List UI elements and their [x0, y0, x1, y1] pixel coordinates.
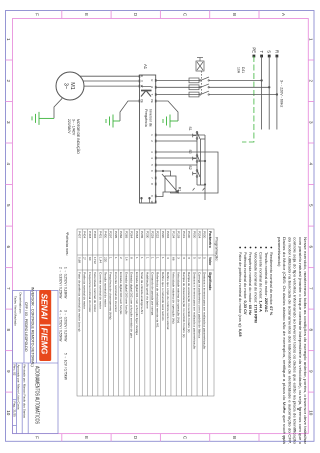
ground motor [32, 112, 54, 125]
title main [34, 366, 41, 424]
svg-text:A: A [281, 13, 286, 17]
svg-text:Inversor de: Inversor de [149, 109, 153, 127]
title row approved [16, 365, 20, 410]
svg-text:P403: P403 [88, 231, 92, 239]
circuit breaker DJ1 label [237, 67, 246, 74]
svg-text:D: D [133, 436, 138, 440]
inverter symbol [141, 87, 152, 97]
svg-text:4: 4 [166, 257, 170, 259]
inverter text label [144, 109, 153, 127]
potentiometer R1 [162, 174, 179, 193]
svg-text:1: 1 [109, 257, 113, 259]
title row project [31, 287, 35, 367]
wire R rail [276, 56, 278, 130]
svg-text:P295: P295 [114, 231, 118, 239]
svg-text:P265: P265 [124, 231, 128, 239]
svg-text:FIEMG: FIEMG [40, 328, 50, 355]
svg-text:6: 6 [150, 170, 154, 172]
wire motor V [83, 80, 140, 82]
svg-text:Rampa de desaceleração no sent: Rampa de desaceleração no sentido horári… [182, 272, 186, 337]
svg-text:Fator de potência nominal do m: Fator de potência nominal do motor (cos … [77, 272, 81, 331]
svg-text:P134: P134 [171, 231, 175, 239]
svg-text:5: 5 [6, 204, 11, 207]
wire phase L1 drop [156, 79, 262, 81]
svg-text:Parâmetro: Parâmetro [208, 231, 212, 248]
svg-text:10: 10 [308, 410, 313, 416]
pushbutton S1 label [188, 127, 192, 131]
svg-text:3: 3 [187, 257, 191, 259]
svg-text:P297: P297 [109, 231, 113, 239]
svg-text:P402: P402 [93, 231, 97, 239]
svg-text:MOTOR DE INDUÇÃO: MOTOR DE INDUÇÃO [76, 119, 81, 154]
svg-text:P264: P264 [130, 231, 134, 239]
svg-text:1,44: 1,44 [98, 257, 102, 263]
parameter table text [77, 231, 212, 349]
junction T drop [260, 79, 262, 81]
node PE [251, 47, 256, 57]
svg-text:Entrada digital DI1 com a funç: Entrada digital DI1 com a função liga / … [135, 272, 139, 335]
svg-text:Frequência nominal do motor: Frequência nominal do motor [88, 272, 92, 312]
wire pot feed [156, 152, 218, 197]
svg-text:B: B [232, 436, 237, 439]
junction R drop [276, 93, 278, 95]
svg-text:S1: S1 [188, 127, 192, 131]
pushbutton S0 label [188, 150, 192, 154]
svg-text:Rev.: 02: Rev.: 02 [13, 365, 17, 376]
svg-text:2*: 2* [83, 257, 87, 261]
svg-text:7: 7 [308, 287, 313, 290]
pushbutton S2 [193, 170, 200, 178]
svg-text:7: 7 [6, 287, 11, 290]
svg-text:1712: 1712 [93, 257, 97, 264]
svg-text:ACIONAMENTOS AUTOMÁTICOS: ACIONAMENTOS AUTOMÁTICOS [34, 366, 41, 424]
svg-text:6: 6 [6, 246, 11, 249]
svg-text:C: C [182, 436, 187, 440]
chain end marks [193, 188, 205, 191]
svg-text:1: 1 [150, 257, 154, 259]
svg-text:9: 9 [150, 195, 154, 197]
paragraph marks [284, 408, 299, 410]
svg-text:Velocidade mínima de operação: Velocidade mínima de operação (Hz) [177, 272, 181, 323]
wire phase L2 drop [156, 86, 270, 88]
title row page [13, 402, 17, 418]
svg-text:U: U [140, 75, 144, 77]
svg-text:Corrente nominal do motor: Corrente nominal do motor [98, 272, 102, 309]
title row revised [23, 365, 27, 419]
svg-text:8: 8 [6, 329, 11, 332]
svg-text:A1: A1 [143, 64, 148, 70]
programacao heading [214, 237, 219, 261]
svg-text:S2: S2 [188, 166, 192, 170]
svg-text:Carrega os parâmetros com o pa: Carrega os parâmetros com o padrão de fá… [197, 272, 201, 338]
ground PE input [163, 115, 178, 128]
svg-text:P263: P263 [135, 231, 139, 239]
svg-text:10: 10 [6, 410, 11, 416]
title block [13, 291, 59, 434]
svg-text:R: R [150, 79, 154, 81]
svg-text:P101: P101 [182, 231, 186, 239]
svg-text:Destrava o inversor para ser r: Destrava o inversor para ser realizada a… [192, 272, 196, 349]
wire chain drops [156, 135, 205, 185]
svg-text:1: 1 [308, 38, 313, 41]
svg-text:P266: P266 [119, 231, 123, 239]
svg-text:9: 9 [6, 370, 11, 373]
svg-text:V: V [140, 80, 144, 82]
svg-text:S: S [267, 50, 272, 53]
svg-text:F: F [35, 436, 40, 439]
svg-text:parametrizando):: parametrizando): [277, 237, 282, 267]
svg-text:3~: 3~ [63, 83, 69, 89]
svg-text:DJ1: DJ1 [241, 67, 245, 73]
svg-text:E: E [84, 13, 89, 16]
svg-text:Frequência de chaveamento (kHz: Frequência de chaveamento (kHz) [109, 272, 113, 319]
node S [267, 50, 272, 57]
svg-text:P100: P100 [187, 231, 191, 239]
svg-text:P400: P400 [104, 231, 108, 239]
svg-text:6: 6 [308, 246, 313, 249]
supply label 3~ 220V 60Hz [280, 80, 284, 107]
table footnote [59, 232, 70, 380]
pushbutton S1 [193, 132, 200, 140]
notes bullet list [238, 247, 274, 338]
svg-text:1: 1 [6, 38, 11, 41]
svg-text:Define que o tipo de controle: Define que o tipo de controle será vetor… [166, 272, 170, 330]
node R [274, 50, 279, 57]
svg-text:P000: P000 [192, 231, 196, 239]
junction control b [204, 183, 206, 185]
svg-text:8: 8 [150, 183, 154, 185]
svg-text:4: 4 [6, 163, 11, 166]
wire motor U [80, 75, 140, 77]
svg-text:PE: PE [251, 47, 256, 53]
junction control a [204, 160, 206, 162]
svg-text:Valor: Valor [208, 257, 212, 266]
svg-text:INVERSOR - CONTROLE REMOTO (: INVERSOR - CONTROLE REMOTO (VETORIAL) [31, 287, 35, 367]
svg-text:1: 1 [161, 257, 165, 259]
svg-text:Destrava o inversor para ser r: Destrava o inversor para ser realizada a… [203, 272, 207, 349]
svg-text:4: 4 [308, 163, 313, 166]
svg-text:F: F [35, 13, 40, 16]
wire inverter PE output [120, 101, 140, 121]
svg-text:10: 10 [150, 201, 154, 204]
svg-text:D: D [133, 13, 138, 17]
svg-text:220: 220 [104, 257, 108, 262]
inverter output pins UVW [139, 75, 141, 103]
svg-text:PE: PE [140, 99, 144, 103]
svg-text:8: 8 [130, 257, 134, 259]
svg-text:3: 3 [177, 257, 181, 259]
svg-text:60: 60 [88, 257, 92, 261]
svg-text:P407: P407 [77, 231, 81, 239]
svg-text:3: 3 [308, 121, 313, 124]
svg-text:T: T [259, 50, 264, 53]
inverter designator A1 [143, 64, 148, 70]
svg-text:P229: P229 [150, 231, 154, 239]
svg-text:1: 1 [140, 257, 144, 259]
svg-text:7: 7 [150, 177, 154, 179]
svg-text:CFP / 03 - PEDRO LEOPOLDO: CFP / 03 - PEDRO LEOPOLDO [24, 302, 28, 352]
frequency inverter U1 box [140, 75, 156, 203]
svg-text:P220: P220 [161, 231, 165, 239]
svg-text:5: 5 [150, 164, 154, 166]
svg-text:Fator de potência nominal do m: Fator de potência nominal do motor (cos … [238, 252, 243, 337]
svg-text:B: B [232, 13, 237, 16]
svg-text:9: 9 [308, 370, 313, 373]
svg-text:Revisado por: Marcos Paulo do: Revisado por: Marcos Paulo dos Santos [23, 365, 27, 419]
svg-text:5: 5 [192, 257, 196, 259]
notes paragraph [277, 237, 308, 445]
svg-text:10A: 10A [237, 67, 241, 74]
svg-text:1: 1 [135, 257, 139, 259]
svg-text:Desenhado por:: Desenhado por: [19, 293, 23, 315]
svg-text:1: 1 [145, 257, 149, 259]
svg-text:1: 1 [156, 257, 160, 259]
motor M1 [56, 72, 84, 100]
svg-text:1 → 0,25CV / 0,18KW: 1 → 0,25CV / 0,18KW [64, 267, 68, 298]
node T [259, 50, 264, 57]
svg-text:P235: P235 [140, 231, 144, 239]
title row rev [13, 365, 17, 376]
svg-text:PE: PE [150, 99, 154, 103]
junction pot [162, 170, 164, 172]
svg-text:Significado: Significado [208, 272, 212, 290]
svg-text:2: 2 [150, 140, 154, 142]
svg-text:Frequência: Frequência [144, 109, 148, 127]
svg-text:5: 5 [308, 204, 313, 207]
inverter control pins [155, 134, 157, 204]
svg-text:Habilitação geral via borne: Habilitação geral via borne [145, 272, 149, 309]
svg-text:3: 3 [182, 257, 186, 259]
svg-text:4 → 0,75CV / 0,55KW: 4 → 0,75CV / 0,55KW [59, 310, 63, 341]
wire motor ground [54, 98, 62, 118]
junction S drop [268, 86, 270, 88]
svg-text:5 → 1CV / 0,75KW: 5 → 1CV / 0,75KW [64, 353, 68, 380]
svg-text:Dados do Motor (OBS: Os dados: Dados do Motor (OBS: Os dados abaixo são… [282, 237, 287, 445]
svg-text:M1: M1 [69, 82, 75, 90]
title row cfp [24, 302, 28, 352]
svg-text:2 → 0,33CV / 0,25KW: 2 → 0,33CV / 0,25KW [59, 267, 63, 298]
wire PE rail (green dashed) [242, 56, 254, 142]
svg-text:Entrada digital DI3 sem função: Entrada digital DI3 sem função [124, 272, 128, 315]
svg-text:Rampa de aceleração no sentido: Rampa de aceleração no sentido horário (… [187, 272, 191, 332]
svg-text:S: S [150, 86, 154, 88]
svg-text:Entrada digital DI2 com a funç: Entrada digital DI2 com a função sentido… [130, 272, 134, 338]
svg-text:14: 14 [124, 257, 128, 261]
circuit breaker DJ1 [189, 58, 209, 97]
svg-text:Sinal da entrada analógica AI1: Sinal da entrada analógica AI1 [140, 272, 144, 314]
svg-text:2: 2 [6, 80, 11, 83]
svg-text:P230: P230 [145, 231, 149, 239]
parameter table [77, 229, 214, 396]
svg-text:1: 1 [150, 134, 154, 136]
svg-text:SENAI: SENAI [40, 294, 50, 320]
control common rail [200, 135, 205, 200]
pushbutton S2 label [188, 166, 192, 170]
svg-text:Referência de velocidade remot: Referência de velocidade remota via AI1 [156, 272, 160, 328]
svg-text:C: C [182, 13, 187, 17]
svg-text:P401: P401 [98, 231, 102, 239]
svg-text:1: 1 [114, 257, 118, 259]
ground inverter output [106, 115, 120, 128]
svg-text:Pag.: 21/25: Pag.: 21/25 [13, 402, 17, 418]
svg-text:R1: R1 [178, 187, 182, 191]
svg-text:3: 3 [150, 151, 154, 153]
svg-text:P404: P404 [83, 231, 87, 239]
svg-text:2: 2 [308, 80, 313, 83]
svg-text:P204: P204 [197, 231, 201, 239]
svg-text:E: E [84, 436, 89, 439]
svg-text:P202: P202 [166, 231, 170, 239]
svg-text:Tadeu Vieira Machado: Tadeu Vieira Machado [14, 296, 18, 326]
title row drawn by [14, 293, 23, 327]
potentiometer R1 label [178, 187, 182, 191]
svg-text:220/380V: 220/380V [67, 119, 71, 134]
svg-text:W: W [140, 85, 144, 88]
svg-text:5: 5 [197, 257, 201, 259]
wire inverter PE input [156, 101, 178, 121]
inverter input pins RST [155, 79, 157, 102]
wire phase L3 drop [156, 94, 277, 96]
svg-text:Potência nominal do motor: Potência nominal do motor [83, 272, 87, 309]
wire contact chain [196, 131, 198, 185]
svg-text:Velocidade máxima de operação: Velocidade máxima de operação (Hz) [171, 272, 175, 324]
svg-text:2: 2 [119, 257, 123, 259]
svg-text:Tensão nominal do motor: Tensão nominal do motor [104, 272, 108, 307]
svg-text:Define que o comando será remo: Define que o comando será remoto [161, 272, 165, 321]
wire T rail [261, 56, 263, 130]
svg-text:Corrente nominal do inversor: Corrente nominal do inversor [114, 272, 118, 312]
svg-text:P222: P222 [156, 231, 160, 239]
svg-text:*Potências nom.:: *Potências nom.: [65, 232, 69, 256]
svg-text:8: 8 [308, 329, 313, 332]
svg-text:P000: P000 [203, 231, 207, 239]
svg-text:0,68: 0,68 [77, 257, 81, 263]
wire motor W [84, 85, 140, 87]
svg-text:P133: P133 [177, 231, 181, 239]
svg-text:Velocidade nominal do motor: Velocidade nominal do motor [93, 272, 97, 312]
svg-text:4: 4 [150, 157, 154, 159]
svg-text:3~ - 220V - 60Hz: 3~ - 220V - 60Hz [280, 80, 284, 107]
svg-text:Programação:: Programação: [214, 237, 219, 261]
svg-text:3 → 0,50CV / 0,37KW: 3 → 0,50CV / 0,37KW [64, 310, 68, 341]
motor label [67, 119, 81, 154]
pushbutton S0 [193, 155, 200, 163]
svg-text:5: 5 [203, 257, 207, 259]
svg-text:Entrada digital DI4 sem função: Entrada digital DI4 sem função [119, 272, 123, 315]
inverter end terminals [141, 197, 151, 202]
svg-text:3: 3 [6, 121, 11, 124]
wire S rail [268, 56, 270, 130]
svg-text:66: 66 [171, 257, 175, 261]
svg-text:R: R [274, 50, 279, 53]
svg-text:3~ - 1/4CV: 3~ - 1/4CV [72, 119, 76, 136]
SENAI FIEMG logo [39, 290, 51, 361]
svg-text:Comando de parada por rampa: Comando de parada por rampa [150, 272, 154, 315]
